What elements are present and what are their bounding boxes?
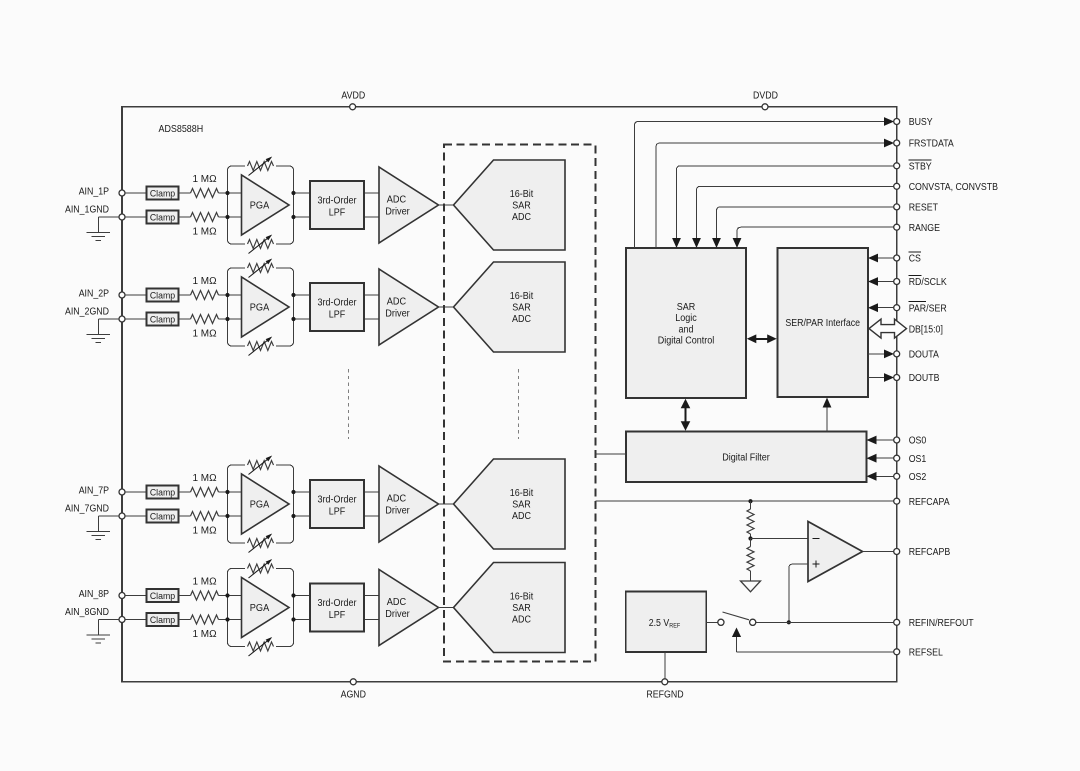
- svg-text:Driver: Driver: [385, 505, 410, 516]
- svg-text:SER/PAR Interface: SER/PAR Interface: [785, 318, 860, 329]
- svg-text:ADC: ADC: [512, 212, 531, 223]
- svg-text:AGND: AGND: [341, 689, 366, 700]
- svg-text:1 MΩ: 1 MΩ: [192, 473, 217, 484]
- svg-text:RANGE: RANGE: [909, 223, 941, 234]
- svg-text:SAR: SAR: [677, 302, 696, 313]
- svg-text:PGA: PGA: [250, 500, 270, 511]
- svg-text:REFGND: REFGND: [646, 689, 683, 700]
- svg-text:DOUTB: DOUTB: [909, 373, 940, 384]
- svg-text:FRSTDATA: FRSTDATA: [909, 139, 954, 150]
- svg-text:Driver: Driver: [385, 308, 410, 319]
- svg-text:3rd-Order: 3rd-Order: [318, 598, 358, 609]
- svg-text:SAR: SAR: [512, 303, 531, 314]
- svg-text:PGA: PGA: [250, 603, 270, 614]
- svg-text:Clamp: Clamp: [150, 488, 175, 499]
- svg-text:CONVSTA, CONVSTB: CONVSTA, CONVSTB: [909, 182, 999, 193]
- svg-text:AIN_7GND: AIN_7GND: [65, 504, 109, 515]
- svg-text:LPF: LPF: [329, 610, 346, 621]
- svg-text:SAR: SAR: [512, 603, 531, 614]
- svg-text:ADC: ADC: [387, 597, 406, 608]
- svg-text:PGA: PGA: [250, 303, 270, 314]
- svg-text:REFCAPA: REFCAPA: [909, 497, 950, 508]
- svg-text:ADS8588H: ADS8588H: [159, 123, 204, 135]
- svg-text:DOUTA: DOUTA: [909, 350, 939, 361]
- svg-text:Digital Control: Digital Control: [658, 335, 715, 346]
- svg-text:2.5 V: 2.5 V: [649, 618, 670, 629]
- svg-text:Clamp: Clamp: [150, 291, 175, 302]
- svg-text:OS2: OS2: [909, 472, 927, 483]
- svg-text:1 MΩ: 1 MΩ: [192, 276, 217, 287]
- svg-text:Clamp: Clamp: [150, 591, 175, 602]
- svg-text:16-Bit: 16-Bit: [510, 189, 534, 200]
- svg-text:AIN_2P: AIN_2P: [79, 289, 110, 300]
- svg-text:SAR: SAR: [512, 201, 531, 212]
- svg-text:AIN_7P: AIN_7P: [79, 486, 110, 497]
- svg-text:LPF: LPF: [329, 309, 346, 320]
- svg-text:STBY: STBY: [909, 161, 932, 172]
- svg-text:REFSEL: REFSEL: [909, 647, 944, 658]
- svg-text:16-Bit: 16-Bit: [510, 291, 534, 302]
- svg-text:BUSY: BUSY: [909, 117, 933, 128]
- svg-text:ADC: ADC: [387, 195, 406, 206]
- svg-text:REFCAPB: REFCAPB: [909, 547, 951, 558]
- svg-text:Clamp: Clamp: [150, 315, 175, 326]
- svg-text:ADC: ADC: [387, 297, 406, 308]
- svg-text:ADC: ADC: [512, 511, 531, 522]
- svg-text:AIN_8GND: AIN_8GND: [65, 607, 109, 618]
- svg-text:AVDD: AVDD: [341, 91, 365, 102]
- svg-text:1 MΩ: 1 MΩ: [192, 629, 217, 640]
- svg-text:1 MΩ: 1 MΩ: [192, 525, 217, 536]
- svg-text:3rd-Order: 3rd-Order: [318, 494, 358, 505]
- svg-text:AIN_1GND: AIN_1GND: [65, 205, 109, 216]
- svg-text:RESET: RESET: [909, 203, 938, 214]
- svg-text:OS1: OS1: [909, 454, 927, 465]
- svg-text:LPF: LPF: [329, 506, 346, 517]
- svg-text:Logic: Logic: [675, 313, 697, 324]
- svg-text:Clamp: Clamp: [150, 512, 175, 523]
- svg-text:SAR: SAR: [512, 500, 531, 511]
- svg-text:REFIN/REFOUT: REFIN/REFOUT: [909, 618, 974, 629]
- svg-text:OS0: OS0: [909, 436, 927, 447]
- svg-text:PGA: PGA: [250, 201, 270, 212]
- svg-text:ADC: ADC: [512, 314, 531, 325]
- svg-text:DVDD: DVDD: [753, 91, 778, 102]
- svg-text:1 MΩ: 1 MΩ: [192, 328, 217, 339]
- svg-text:Clamp: Clamp: [150, 213, 175, 224]
- svg-text:1 MΩ: 1 MΩ: [192, 174, 217, 185]
- svg-text:Clamp: Clamp: [150, 615, 175, 626]
- svg-text:Driver: Driver: [385, 609, 410, 620]
- svg-text:3rd-Order: 3rd-Order: [318, 297, 358, 308]
- svg-text:AIN_8P: AIN_8P: [79, 589, 110, 600]
- svg-text:ADC: ADC: [387, 494, 406, 505]
- svg-text:Driver: Driver: [385, 206, 410, 217]
- svg-text:1 MΩ: 1 MΩ: [192, 576, 217, 587]
- svg-text:and: and: [679, 324, 694, 335]
- svg-text:RD/SCLK: RD/SCLK: [909, 277, 947, 288]
- svg-text:AIN_1P: AIN_1P: [79, 187, 110, 198]
- svg-text:Digital Filter: Digital Filter: [722, 453, 770, 464]
- svg-text:16-Bit: 16-Bit: [510, 488, 534, 499]
- svg-text:AIN_2GND: AIN_2GND: [65, 307, 109, 318]
- svg-text:16-Bit: 16-Bit: [510, 592, 534, 603]
- svg-text:3rd-Order: 3rd-Order: [318, 195, 358, 206]
- svg-text:1 MΩ: 1 MΩ: [192, 226, 217, 237]
- svg-text:ADC: ADC: [512, 615, 531, 626]
- svg-text:DB[15:0]: DB[15:0]: [909, 324, 943, 335]
- svg-text:Clamp: Clamp: [150, 189, 175, 200]
- svg-text:PAR/SER: PAR/SER: [909, 303, 947, 314]
- svg-text:CS: CS: [909, 254, 921, 265]
- svg-text:LPF: LPF: [329, 207, 346, 218]
- svg-text:REF: REF: [669, 623, 680, 630]
